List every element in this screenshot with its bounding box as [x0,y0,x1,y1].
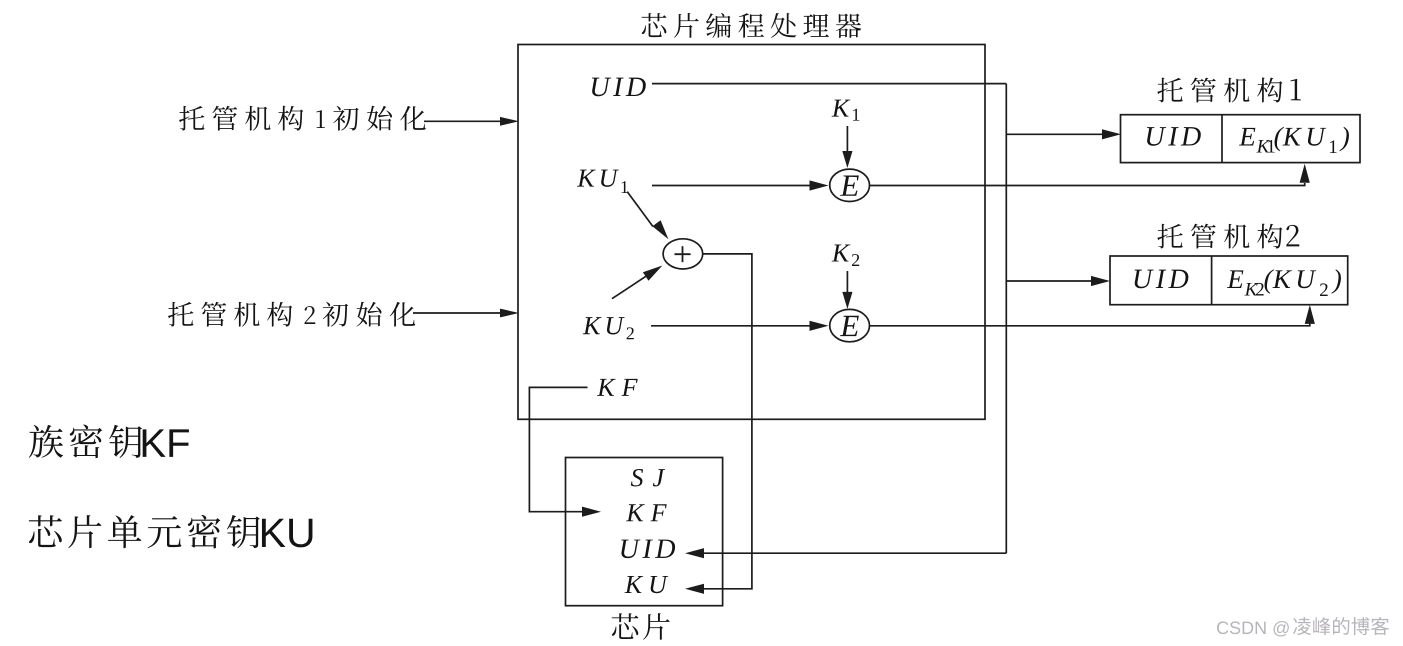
label E2 [840,316,859,336]
wire KF [529,387,587,511]
chip label SJ [631,469,643,486]
escrow1 cell EK1(KU1) [1239,128,1255,146]
watermark CSDN 凌峰的博客 [1217,621,1228,634]
label KU2 [583,317,602,334]
chip programming processor box [518,45,985,420]
arrowhead E2 output [1305,305,1315,324]
label 托管机构 2 [1157,224,1299,249]
wire UID to chip [700,552,1006,554]
label 芯片 [612,613,670,640]
label UID [592,78,611,97]
wire KU2 to adder [612,274,650,299]
escrow1 box [1121,115,1361,163]
arrowhead KU2 adder [643,266,663,281]
escrow2 box [1110,256,1348,305]
wire init1 [424,120,513,122]
wire UID vertical [1005,84,1007,554]
chip label UID [621,540,640,559]
escrow2 cell EK2(KU2) [1227,270,1243,288]
arrowhead init1 [500,117,519,126]
wire KU1 to adder [627,192,653,227]
arrowhead UID escrow2 [1091,276,1110,286]
label KF [597,379,616,396]
arrowhead adder chip KU [685,584,704,594]
wire UID to escrow2 [1006,280,1102,282]
label KU1 [577,170,596,187]
label K2 [832,244,851,261]
arrowhead UID escrow1 [1102,129,1121,139]
encryptor E2 circle [830,309,870,341]
adder circle [663,239,703,269]
label 托管机构 1 初始化 [179,106,426,131]
label K1 [832,100,851,117]
wire K1 down [846,126,848,151]
arrowhead K1 [842,151,852,168]
arrowhead KU1 [810,180,829,190]
encryptor E1 circle [830,169,870,201]
title label 芯片编程处理器 [642,13,862,38]
annotation 芯片单元密钥KU [29,515,260,549]
arrowhead E1 output [1300,164,1310,183]
label 托管机构 2 初始化 [168,302,415,327]
arrowhead KU1 adder [652,220,668,239]
adder plus sign [675,253,691,255]
arrowhead KU2 [810,321,829,331]
arrowhead KF chip [582,507,601,517]
annotation 族密钥KF [29,425,142,459]
wire E1 output [870,183,1305,186]
escrow1 divider [1221,115,1223,163]
escrow1 cell UID [1147,127,1166,146]
label 托管机构 1 [1157,78,1301,103]
arrowhead UID chip [685,548,704,558]
wire KU2 to E2 [651,325,819,327]
wire E2 output [870,323,1310,326]
chip box [566,458,723,606]
wire UID horizontal [652,83,1006,85]
chip label KF [626,504,645,521]
wire K2 down [846,271,848,292]
wire init2 [413,312,513,314]
chip label KU [624,576,643,593]
arrowhead K2 [842,292,852,309]
wire adder to chip KU [700,254,752,589]
escrow2 cell UID [1135,270,1154,289]
label E1 [840,176,859,196]
wire UID to escrow1 [1006,133,1113,135]
arrowhead init2 [500,309,519,318]
wire KU1 to E1 [652,185,819,187]
escrow2 divider [1211,256,1213,305]
